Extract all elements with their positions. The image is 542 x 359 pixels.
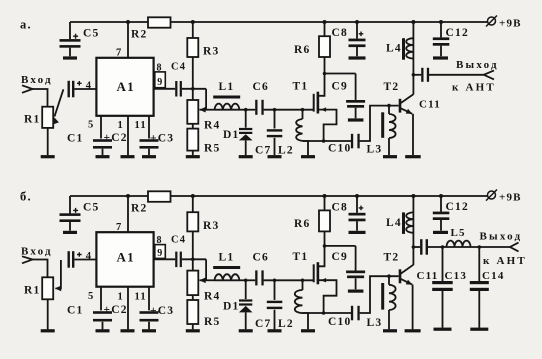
wire: T1 source loop (b) [318,280,337,313]
core of L4 (a) [402,38,405,60]
svg-text:L4: L4 [386,217,402,229]
svg-text:A1: A1 [117,250,135,265]
wire: R5 to ground (a) [192,151,194,156]
ground at R1 (b) [41,329,55,332]
capacitor C10 (b) [303,312,352,314]
svg-text:Вход: Вход [21,74,53,86]
svg-text:D1: D1 [223,301,239,313]
svg-text:5: 5 [88,120,94,131]
svg-text:L1: L1 [219,81,235,93]
core of L3 (b) [381,283,384,310]
svg-text:C1: C1 [67,133,83,145]
svg-text:R4: R4 [204,119,220,131]
wire: T2 emitter to ground (a) [412,114,414,155]
wire: T1 drain (a) [318,57,325,96]
svg-text:C11: C11 [417,270,439,282]
varicap D1 (b) [245,280,247,299]
ground at D1 (b) [239,329,253,332]
wire: C10 to T2 base (b) [360,276,399,313]
output terminal Выход (b) [510,243,519,252]
svg-text:C5: C5 [83,202,99,214]
wire: L2 to ground (b) [303,313,309,329]
svg-text:C12: C12 [446,27,469,39]
potentiometer R1 (a) [42,107,53,128]
svg-text:1: 1 [118,120,124,131]
wire: C4 over R3 node to riser (a) [182,88,206,90]
svg-text:R4: R4 [204,291,220,303]
capacitor C5 (a) [69,22,71,39]
capacitor C1 (a) [68,81,70,98]
potentiometer R1 (b) [42,277,53,299]
svg-text:C7: C7 [255,318,271,330]
capacitor C14 (b) [478,245,482,249]
wire: L3 to ground (a) [388,138,390,155]
ground at R1 (a) [41,155,55,158]
resistor R5 (a) [187,129,198,151]
svg-text:R5: R5 [204,143,220,155]
capacitor C12 (b) [440,196,442,212]
inductor L1 (a) [215,109,240,111]
wire: L1 to C6 (b) [240,279,256,281]
resistor R3 (a) [192,22,194,38]
svg-text:а.: а. [20,18,32,32]
wire: collector node to C11 (a) [412,73,416,77]
wire: C11 to output (a) [429,74,484,76]
wire: riser down to R4 wiper (b) [205,259,207,280]
ground at pin 1 (b) [121,329,135,332]
resistor R2 (b) [148,191,171,202]
ground at L3 (a) [383,155,397,158]
node: rail junctions (a) [126,20,130,24]
svg-text:+C2: +C2 [104,132,128,144]
op-amp / IC A1 (a) [96,58,153,116]
svg-text:R6: R6 [294,218,310,230]
ground at R5 (b) [186,329,200,332]
svg-text:C9: C9 [332,81,348,93]
svg-text:R2: R2 [131,29,147,41]
svg-text:C13: C13 [445,270,468,282]
svg-text:L5: L5 [451,227,466,239]
svg-text:D1: D1 [223,129,239,141]
capacitor C9 (b) [323,244,327,248]
svg-text:C10: C10 [328,316,351,328]
core of L3 (a) [381,112,384,138]
capacitor C12 (a) [440,22,442,37]
svg-text:R3: R3 [203,220,219,232]
svg-text:R2: R2 [131,203,147,215]
wire: R4 wiper (a) [200,109,215,111]
ground at C8 (b) [349,231,366,234]
inductor L4 (a) [412,22,414,95]
wire: R3 to R4 (b) [192,231,194,270]
svg-text:T2: T2 [384,81,400,93]
capacitor C11 (a) [421,68,423,82]
wire: R4 to R5 (a) [192,124,194,129]
svg-text:C11: C11 [419,98,441,110]
capacitor C9 (a) [323,72,327,76]
ground at L2 (b) [301,329,315,332]
ground at C9 (a) [348,118,364,121]
ground at C8 (a) [349,56,366,59]
capacitor C11 (b) [420,239,422,255]
wire: L2 to ground (a) [303,141,309,155]
inductor L1 (b) [215,279,240,281]
wire: T1 source loop (a) [318,110,337,141]
wire: C11 to C13 node (b) [428,246,447,248]
resistor R3 (b) [192,196,194,212]
wire: +9V supply rail (a) [70,21,148,23]
svg-text:R1: R1 [24,114,40,126]
wire: +9V supply rail (b) [70,195,148,197]
svg-text:к АНТ: к АНТ [483,255,527,267]
svg-text:T1: T1 [293,251,309,263]
svg-text:C10: C10 [328,142,351,154]
ground at C7 (a) [268,155,282,158]
svg-text:L1: L1 [219,252,235,264]
wire: pin 9 to C4 (b) [154,258,176,260]
svg-text:T2: T2 [384,252,400,264]
ground at pin 1 (a) [121,155,135,158]
inductor L2 (b) [302,280,304,290]
capacitor C7 (a) [274,110,276,129]
ground at L3 (b) [383,329,397,332]
ground at C3 (b) [142,329,156,332]
svg-text:L3: L3 [367,317,383,329]
svg-text:C6: C6 [253,252,269,264]
wire: T2 emitter (a) [401,108,412,114]
ground at C7 (b) [268,329,282,332]
wire: T1 drain (b) [318,231,325,266]
svg-text:L2: L2 [278,144,294,156]
ground at C5 (b) [63,231,77,234]
svg-text:+9В: +9В [499,191,522,203]
svg-text:L2: L2 [278,318,294,330]
capacitor C8 (a) [356,22,358,39]
wire: C1 to pin 4 (b) [74,259,96,261]
svg-text:R1: R1 [24,285,40,297]
wire: riser down to R4 wiper (a) [205,89,207,110]
ground at C3 (a) [142,155,156,158]
resistor R6 (b) [324,196,326,210]
svg-text:C1: C1 [67,305,83,317]
svg-text:C8: C8 [332,201,348,213]
wire: C6 to gate line (a) [264,109,314,111]
wire: input to R1 (a) [33,89,48,107]
wire: pin 7 from rail (b) [127,196,129,232]
svg-text:R6: R6 [294,44,310,56]
wire: R4 to R5 (b) [192,295,194,300]
wire: R5 to ground (b) [192,324,194,329]
resistor R6 (a) [324,22,326,36]
svg-text:L4: L4 [386,43,402,55]
trimmer R4 (a) [187,100,198,124]
resistor R2 (a) [148,17,171,27]
resistor R5 (b) [187,300,198,324]
wire: L1 to C6 (a) [240,109,256,111]
svg-text:Вход: Вход [21,245,53,257]
svg-text:к АНТ: к АНТ [452,81,496,93]
capacitor C1 (b) [68,251,70,268]
wire: R1 to ground (a) [47,128,49,155]
trimmer R4 (b) [187,271,198,296]
+9V terminal (a) [488,17,496,25]
ground at C2 (a) [96,155,110,158]
wire: pin 9 to C4 (a) [154,88,176,90]
capacitor C4 (b) [175,252,177,268]
svg-text:C4: C4 [171,62,186,73]
svg-text:11: 11 [135,120,147,131]
capacitor C2 (a) [93,139,112,142]
svg-text:C7: C7 [255,144,271,156]
wire: R1 to ground (b) [47,299,49,329]
ground at T2 emitter (b) [405,329,421,332]
svg-text:9: 9 [157,77,163,88]
svg-text:1: 1 [118,291,124,302]
+9V terminal (b) [488,191,496,199]
wire: C10 to T2 base (a) [360,106,399,141]
svg-text:T1: T1 [293,81,309,93]
ground at C14 (b) [470,328,488,331]
capacitor C10 (a) [303,140,352,142]
svg-text:5: 5 [88,291,94,302]
wire: T2 collector (b) [401,265,414,274]
pin 9 box (a) [155,72,166,88]
svg-text:R3: R3 [203,46,219,58]
pin 9 box (b) [155,245,166,259]
capacitor C4 (a) [175,81,177,97]
op-amp / IC A1 (b) [96,232,153,287]
varicap D1 (a) [245,110,247,128]
capacitor C3 (b) [140,311,159,314]
inductor L5 (b) [447,246,480,248]
svg-text:C9: C9 [332,251,348,263]
wire: T2 emitter (b) [401,279,412,285]
ground at L2 (a) [301,155,315,158]
svg-text:C14: C14 [482,270,505,282]
capacitor C8 (b) [356,196,358,213]
wire: L3 to ground (b) [388,310,390,329]
wire: C6 to gate line (b) [264,279,314,281]
capacitor C5 (b) [69,196,71,213]
core of L4 (b) [402,212,405,234]
inductor L3 (a) [388,106,390,114]
core of L1 (a) [213,96,240,99]
wire: C4 over R3 node to riser (b) [182,258,206,260]
inductor L3 (b) [388,276,390,285]
svg-text:A1: A1 [117,79,135,94]
ground at C12 (b) [433,231,448,234]
wire: pin 7 from rail (a) [127,22,129,58]
inductor L4 (b) [412,196,414,265]
svg-text:C6: C6 [253,81,269,93]
wire: R3 to R4 (a) [192,57,194,100]
wire: input to R1 (b) [33,260,48,278]
capacitor C6 (a) [255,100,257,115]
svg-text:4: 4 [86,251,92,262]
capacitor C3 (a) [140,139,159,142]
svg-text:4: 4 [86,80,92,91]
svg-text:C5: C5 [83,28,99,40]
ground at T2 emitter (a) [405,155,421,158]
inductor L2 (a) [302,110,304,119]
svg-text:11: 11 [135,291,147,302]
ground at D1 (a) [239,155,253,158]
svg-text:Выход: Выход [456,59,499,71]
capacitor C6 (b) [255,270,257,285]
wire: T2 collector (a) [401,94,414,103]
svg-text:C12: C12 [446,201,469,213]
wire: R1 wiper (b) [56,260,61,288]
capacitor C7 (b) [274,280,276,300]
svg-text:C4: C4 [171,235,186,246]
ground at C5 (a) [63,56,77,59]
core of L1 (b) [213,266,240,269]
ground at C9 (b) [348,290,364,293]
capacitor C2 (b) [93,311,112,314]
svg-text:9: 9 [157,248,163,259]
svg-text:б.: б. [20,189,32,203]
wire: L5 to output (b) [479,246,510,248]
capacitor C13 (b) [442,247,444,281]
output terminal Выход (a) [484,70,494,79]
ground at R5 (a) [186,155,200,158]
wire: R1 wiper (a) [55,89,64,116]
svg-text:Выход: Выход [480,231,523,243]
svg-text:C8: C8 [332,27,348,39]
svg-text:+C2: +C2 [104,304,128,316]
wire: collector node to C11 (b) [412,245,416,249]
svg-text:+9В: +9В [499,17,522,29]
ground at C2 (b) [96,329,110,332]
wire: C1 to pin 4 (a) [74,88,96,90]
ground at C13 (b) [434,328,452,331]
svg-text:+C3: +C3 [150,305,174,317]
svg-text:R5: R5 [204,316,220,328]
svg-text:L3: L3 [367,143,383,155]
svg-text:+C3: +C3 [150,133,174,145]
ground at C12 (a) [433,56,448,59]
node: rail junctions (b) [126,194,130,198]
wire: T2 emitter to ground (b) [412,285,414,330]
wire: R4 wiper (b) [200,279,215,281]
